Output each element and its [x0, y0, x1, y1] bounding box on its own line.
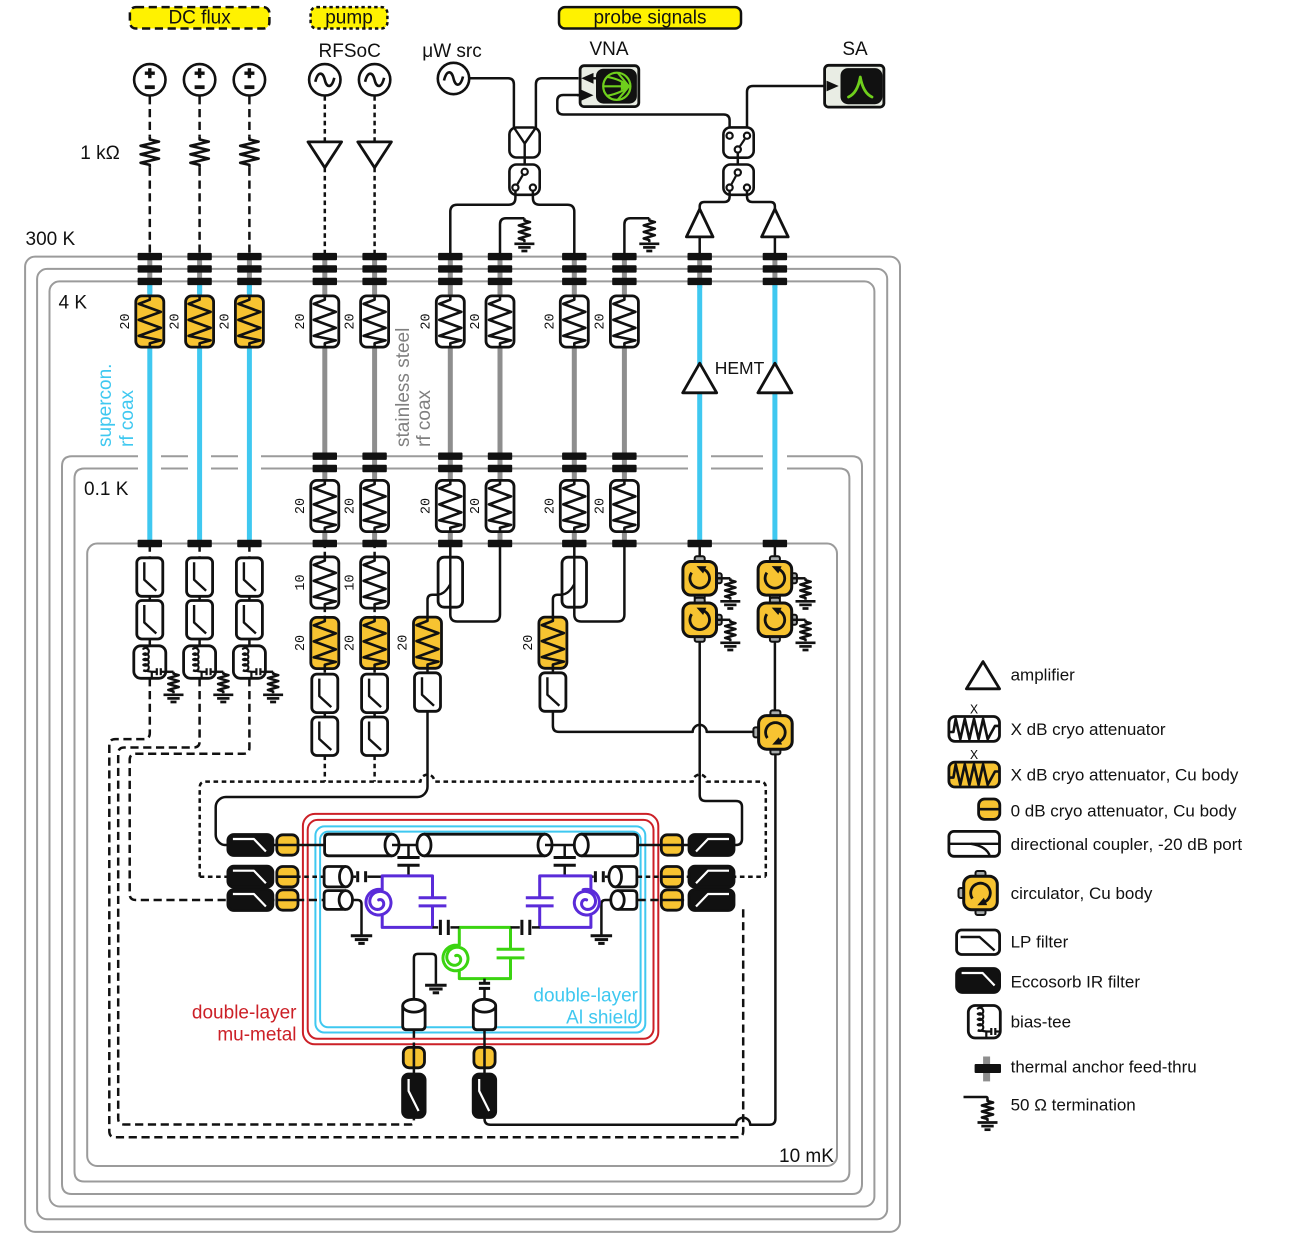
- wire dashed DC flux 1 plate to LP filter: [149, 544, 152, 559]
- attenuator 20 dB Cu body pump 1: [311, 617, 339, 668]
- svg-text:0.1 K: 0.1 K: [84, 479, 129, 500]
- wire from VNA port 1 to power splitter: [536, 78, 579, 127]
- resonator 2 spiral inductor: [574, 889, 599, 915]
- 0 dB attenuator Cu body flux row (right): [638, 899, 690, 902]
- svg-text:Al shield: Al shield: [566, 1008, 638, 1029]
- wire dotted from pump amplifier A1 to 300 K feed-thru: [324, 168, 327, 253]
- wire probe 1: [426, 668, 429, 673]
- wire from single circulator down and to device output (hops flux line): [485, 755, 776, 1125]
- supercon rf coax output line 2: [772, 284, 777, 542]
- wire DC flux 3 between LP filters: [248, 596, 251, 601]
- legend X dB cryo attenuator Cu body symbol: [949, 762, 1000, 787]
- LP filter pump 1 (second): [312, 717, 338, 756]
- thermal anchor feed-thru col 2 at 10 mK plate: [187, 540, 211, 547]
- 50 Ohm termination at lower circulator 1: [718, 619, 731, 622]
- svg-text:20: 20: [218, 313, 233, 329]
- circulator Cu body output 1 (lower): [695, 598, 705, 604]
- coupler spiral inductor (green): [443, 945, 468, 971]
- 50 Ohm termination at upper circulator 1: [718, 577, 731, 580]
- wire from VNA port 2 to microwave switch S2: [557, 95, 729, 131]
- attenuator 20 dB at 4 K col 2 (Cu body): [186, 296, 214, 347]
- thermal anchor feed-thru col 1 at 10 mK plate: [138, 540, 162, 547]
- thermal anchor feed-thrus col 11 at 300 K plates: [763, 253, 787, 260]
- cryostat shell 10 mK stage: [87, 544, 837, 1167]
- thermal anchor feed-thrus col 4 at 0.1 K plates: [313, 453, 337, 460]
- gray feed-thru wire DC flux line 1 at 300 K: [147, 253, 152, 293]
- circulator Cu body output 2 (lower): [770, 598, 780, 604]
- flux line 1 short to ground: [353, 900, 362, 935]
- wire dotted from pump amplifier A2 to 300 K feed-thru: [373, 168, 376, 253]
- svg-text:20: 20: [344, 635, 359, 651]
- stainless steel coax segment 0.1K-10mK col 8: [572, 531, 577, 542]
- attenuator 20 dB at 0.1 K col 4: [311, 480, 339, 531]
- stainless steel coax segment 4K-0.1K col 6: [448, 347, 453, 482]
- wire output line 2 circulator stack to single circulator: [774, 642, 777, 711]
- connector (flux line feed) below shield: [403, 1006, 425, 1030]
- wire -20 dB port of coupler 1 to attenuator: [428, 595, 439, 618]
- thermal anchor feed-thrus col 5 at 300 K plates: [362, 253, 386, 260]
- series capacitor pump drive to resonator 2: [605, 875, 609, 878]
- svg-text:20: 20: [469, 498, 484, 514]
- 50 Ohm termination at bias-tee 3: [268, 672, 278, 694]
- attenuator 20 dB at 4 K col 3 (Cu body): [235, 296, 263, 347]
- svg-text:circulator, Cu body: circulator, Cu body: [1011, 884, 1153, 903]
- svg-text:300 K: 300 K: [26, 229, 76, 250]
- pump amplifier A2 (pointing down): [358, 142, 392, 168]
- feedline coax segment 2 (center): [424, 834, 545, 856]
- DC source V1 (battery symbol): [134, 64, 165, 95]
- stainless steel coax segment 300K-4K col 8: [572, 253, 577, 296]
- thermal anchor feed-thrus col 7 at 0.1 K plates: [488, 453, 512, 460]
- svg-text:rf coax: rf coax: [414, 389, 435, 447]
- thermal anchor feed-thrus col 8 at 300 K plates: [562, 253, 586, 260]
- Eccosorb IR filter output chain: [473, 1074, 496, 1118]
- gray feed-thru wire output line 2 at 300 K: [772, 253, 777, 288]
- microwave switch S2 (VNA/SA select): [723, 127, 753, 157]
- svg-text:4 K: 4 K: [59, 293, 88, 314]
- attenuator 20 dB at 4 K col 7: [486, 296, 514, 347]
- wire dashed DC flux 2 plate to LP filter: [198, 544, 201, 559]
- double-layer Al shield (inner): [320, 832, 640, 1028]
- wire dashed from R1 to 300 K feed-thru: [149, 168, 152, 253]
- Eccosorb IR filter flux connector chain: [403, 1074, 426, 1118]
- svg-text:double-layer: double-layer: [533, 986, 638, 1007]
- Eccosorb IR filter feedline in (left): [228, 844, 277, 847]
- directional coupler probe line 2: [573, 544, 576, 558]
- wire dashed DC flux 3 plate to LP filter: [248, 544, 251, 559]
- connector (output line) below shield: [473, 1006, 495, 1030]
- svg-text:mu-metal: mu-metal: [217, 1025, 296, 1046]
- svg-text:X: X: [970, 704, 978, 719]
- svg-text:20: 20: [294, 498, 309, 514]
- svg-text:Eccosorb IR filter: Eccosorb IR filter: [1011, 973, 1141, 992]
- gray feed-thru wire DC flux line 2 at 300 K: [197, 253, 202, 293]
- wire from switch S3 to output amplifier 1: [700, 191, 730, 211]
- svg-text:20: 20: [119, 313, 134, 329]
- VNA port 1 arrow (out): [581, 73, 593, 84]
- stainless steel coax segment 4K-0.1K col 7: [498, 347, 503, 482]
- 50 Ohm termination (probe return 2): [644, 218, 655, 242]
- flux row coax stub (right): [618, 891, 637, 910]
- RFSoC source 2 (AC source): [359, 64, 390, 95]
- readout resonator 1 (circuit loop): [382, 876, 432, 928]
- svg-text:μW src: μW src: [422, 41, 482, 62]
- VNA Smith-chart icon: [603, 73, 630, 100]
- svg-text:thermal anchor feed-thru: thermal anchor feed-thru: [1011, 1058, 1197, 1077]
- attenuator 20 dB at 0.1 K col 8: [560, 480, 588, 531]
- svg-text:20: 20: [469, 313, 484, 329]
- legend 0 dB cryo attenuator symbol: [979, 799, 1000, 819]
- wire bias-tee 1 RF port to 50 Ohm termination: [166, 671, 174, 674]
- thermal anchor feed-thru col 6 at 10 mK plate: [438, 540, 462, 547]
- attenuator 20 dB at 0.1 K col 9: [610, 480, 638, 531]
- thermal anchor feed-thru col 7 at 10 mK plate: [488, 540, 512, 547]
- VNA instrument box: [580, 66, 639, 107]
- wire dashed DC flux 1 routing to right flux port (around bottom): [109, 678, 743, 1137]
- 0 dB attenuator Cu body pump row (left): [296, 875, 325, 878]
- wire dashed from DC source V1 to resistor: [149, 96, 152, 137]
- LP filter DC flux 2 (second): [187, 601, 213, 640]
- room-temperature output amplifier 2: [762, 209, 789, 237]
- wire from switch S1 to probe line 2 (300 K): [533, 191, 574, 253]
- 0 dB attenuator Cu body feedline out (right): [638, 844, 690, 847]
- wire between switch S2 and switch S3: [737, 153, 740, 170]
- wire bias-tee 2 RF port to 50 Ohm termination: [216, 671, 224, 674]
- wire from splitter to switch S1: [523, 158, 526, 165]
- resonator 2 capacitor: [526, 896, 554, 899]
- thermal anchor feed-thru col 10 at 10 mK plate: [688, 540, 712, 547]
- group label pump: [311, 7, 388, 28]
- wire dotted from RFSoC source 2 to amplifier: [373, 96, 376, 142]
- svg-text:pump: pump: [325, 8, 373, 29]
- wire dotted pump 1 plate to 10 dB attenuator: [324, 544, 327, 558]
- tunable coupler circuit loop (green): [459, 927, 510, 978]
- svg-text:20: 20: [419, 313, 434, 329]
- wire dashed flux chain to Eccosorb: [413, 1068, 416, 1074]
- svg-text:20: 20: [294, 313, 309, 329]
- 0 dB attenuator Cu body flux connector chain: [403, 1047, 424, 1067]
- circulator Cu body output 2 (upper): [770, 556, 780, 562]
- thermal anchor feed-thrus col 8 at 0.1 K plates: [562, 453, 586, 460]
- cryostat shell 300 K inner wall: [37, 269, 887, 1219]
- attenuator 20 dB Cu body pump 2: [361, 617, 389, 668]
- gray feed-thru wire output line 1 at 300 K: [697, 253, 702, 288]
- stainless steel coax segment 0.1K-10mK col 4: [322, 531, 327, 542]
- stainless steel coax segment 0.1K-10mK col 6: [448, 531, 453, 542]
- coupler capacitor (green): [497, 948, 525, 951]
- attenuator 20 dB Cu body probe 1: [414, 617, 442, 668]
- thermal anchor feed-thru col 3 at 10 mK plate: [237, 540, 261, 547]
- svg-text:20: 20: [543, 313, 558, 329]
- wire probe 2: [552, 668, 555, 673]
- group label probe signals: [559, 7, 741, 28]
- pump bus right branch into row-2 right Eccosorb: [732, 875, 766, 878]
- LP filter pump 2 (first): [362, 674, 388, 713]
- stainless steel coax segment 300K-4K col 4: [322, 253, 327, 296]
- wire from probe return line 2 to 50 Ohm termination: [624, 218, 649, 253]
- wire dotted pump 2 plate to 10 dB attenuator: [373, 544, 376, 558]
- svg-text:20: 20: [169, 313, 184, 329]
- double-layer mu-metal shield (outer): [303, 814, 658, 1044]
- svg-text:10: 10: [344, 574, 359, 590]
- wire from uW src to power splitter: [469, 78, 514, 127]
- svg-text:10 mK: 10 mK: [779, 1146, 834, 1167]
- legend amplifier symbol: [966, 662, 999, 689]
- svg-text:DC flux: DC flux: [168, 8, 231, 29]
- attenuator 20 dB at 4 K col 6: [436, 296, 464, 347]
- svg-text:20: 20: [419, 498, 434, 514]
- stainless steel coax segment 0.1K-10mK col 9: [622, 531, 627, 542]
- legend LP filter symbol: [957, 930, 1000, 955]
- thermal anchor feed-thru col 8 at 10 mK plate: [562, 540, 586, 547]
- cryostat shell 0.1 K stage outer (top edge with gaps at supercon coax): [62, 456, 862, 1194]
- coupler output capacitor to output connector: [483, 979, 486, 983]
- supercon rf coax output line 1: [697, 284, 702, 542]
- legend 50 Ohm termination symbol: [964, 1097, 988, 1100]
- pump bus dotted wire (to readout drive ports, hops over probe lines): [200, 775, 766, 877]
- wire DC flux 2 between LP filters: [198, 596, 201, 601]
- thermal anchor feed-thru col 9 at 10 mK plate: [612, 540, 636, 547]
- 50 Ohm termination at lower circulator 2: [793, 619, 806, 622]
- Eccosorb IR filter pump row (right): [689, 866, 734, 887]
- supercon rf coax DC flux line 3: [247, 347, 252, 542]
- wire from switch S1 to probe line 1 (300 K): [450, 191, 515, 253]
- wire DC flux 1 between LP filters: [149, 596, 152, 601]
- stainless steel coax segment 300K-4K col 5: [372, 253, 377, 296]
- wire bias-tee 3 RF port to 50 Ohm termination: [265, 671, 273, 674]
- wire dashed DC flux 2 routing to coupler flux port (around bottom): [118, 678, 414, 1124]
- svg-text:20: 20: [397, 635, 412, 651]
- svg-text:bias-tee: bias-tee: [1011, 1013, 1071, 1032]
- thermal anchor feed-thru col 11 at 10 mK plate: [763, 540, 787, 547]
- svg-text:20: 20: [294, 635, 309, 651]
- wire DC flux 2 LP to bias-tee: [198, 639, 201, 646]
- wire DC flux 1 LP to bias-tee: [149, 639, 152, 646]
- LP filter DC flux 2 (first): [187, 558, 213, 597]
- wire dotted pump 2: [373, 608, 376, 619]
- wire dotted pump 2 to pump bus: [373, 756, 376, 782]
- svg-text:20: 20: [593, 313, 608, 329]
- stainless steel coax segment 300K-4K col 7: [498, 253, 503, 296]
- RFSoC source 1 (AC source): [309, 64, 340, 95]
- svg-text:LP filter: LP filter: [1011, 933, 1069, 952]
- wire dotted pump 1: [324, 713, 327, 718]
- room-temperature output amplifier 1: [686, 209, 713, 237]
- stainless steel coax segment 300K-4K col 6: [448, 253, 453, 296]
- series capacitor resonator 2 to coupler: [532, 926, 540, 929]
- resonator 1 capacitor: [419, 896, 447, 899]
- U-turn wire coupler 2 through-port to return line: [574, 544, 624, 622]
- series capacitor resonator 1 to coupler: [433, 926, 439, 929]
- Eccosorb IR filter flux row (left): [228, 899, 277, 902]
- 50 Ohm termination at bias-tee 1: [168, 672, 178, 694]
- pump row coax stub (right): [615, 867, 637, 887]
- Eccosorb IR filter feedline out (right): [689, 835, 734, 856]
- U-turn wire coupler 1 through-port to return line: [450, 544, 500, 622]
- thermal anchor feed-thrus col 3 at 300 K plates: [237, 253, 261, 260]
- legend circulator symbol: [976, 871, 986, 877]
- thermal anchor feed-thrus col 6 at 300 K plates: [438, 253, 462, 260]
- thermal anchor feed-thrus col 9 at 0.1 K plates: [612, 453, 636, 460]
- wire dotted pump 2: [373, 713, 376, 718]
- attenuator 20 dB at 4 K col 8: [560, 296, 588, 347]
- 0 dB attenuator Cu body output chain: [474, 1047, 495, 1067]
- supercon rf coax DC flux line 2: [197, 347, 202, 542]
- bias-tee DC flux 3: [233, 646, 265, 679]
- flux line 2 short to ground: [601, 900, 610, 935]
- svg-text:SA: SA: [842, 39, 868, 60]
- wire dotted from RFSoC source 1 to amplifier: [324, 96, 327, 142]
- attenuator 10 dB pump 1: [311, 557, 339, 608]
- feedline wire at tap 2: [545, 844, 581, 847]
- attenuator 20 dB at 4 K col 9: [610, 296, 638, 347]
- cryostat shell 0.1 K stage inner (top edge with gaps): [75, 469, 850, 1182]
- svg-text:RFSoC: RFSoC: [319, 41, 381, 62]
- svg-text:50 Ω termination: 50 Ω termination: [1011, 1096, 1136, 1115]
- svg-text:20: 20: [344, 313, 359, 329]
- svg-text:stainless steel: stainless steel: [393, 328, 414, 447]
- bias-tee DC flux 1: [134, 646, 166, 679]
- circulator Cu body (single, output 2): [770, 710, 780, 716]
- wire dotted pump 2: [373, 668, 376, 674]
- thermal anchor feed-thrus col 6 at 0.1 K plates: [438, 453, 462, 460]
- LP filter DC flux 3 (first): [236, 558, 262, 597]
- stainless steel coax segment 4K-0.1K col 9: [622, 347, 627, 482]
- wire output line 1 plate to circulator stack: [698, 544, 701, 562]
- resistor 1 kOhm R2: [190, 137, 208, 168]
- stainless steel coax segment 4K-0.1K col 5: [372, 347, 377, 482]
- thermal anchor feed-thrus col 9 at 300 K plates: [612, 253, 636, 260]
- wire dashed from R3 to 300 K feed-thru: [248, 168, 251, 253]
- svg-text:1 kΩ: 1 kΩ: [80, 143, 120, 164]
- HEMT amplifier 2 at 4 K: [758, 363, 792, 393]
- cryostat shell 300 K (outermost): [25, 257, 900, 1232]
- pump bus left branch into row-2 left Eccosorb: [200, 875, 228, 878]
- coupler flux line short to ground (inside shield): [414, 954, 436, 1000]
- legend bias-tee symbol: [968, 1006, 1000, 1039]
- svg-text:HEMT: HEMT: [715, 358, 765, 378]
- svg-text:0 dB cryo attenuator, Cu body: 0 dB cryo attenuator, Cu body: [1011, 802, 1237, 821]
- SA spectrum peak icon: [849, 77, 873, 97]
- svg-text:double-layer: double-layer: [192, 1003, 297, 1024]
- wire dashed from DC source V2 to resistor: [198, 96, 201, 137]
- tap capacitor feedline to resonator 1: [407, 845, 410, 857]
- attenuator 20 dB at 4 K col 1 (Cu body): [136, 296, 164, 347]
- wire DC flux 3 LP to bias-tee: [248, 639, 251, 646]
- thermal anchor feed-thrus col 4 at 300 K plates: [313, 253, 337, 260]
- flux row coax stub (left): [324, 891, 346, 910]
- wire dashed from DC source V3 to resistor: [248, 96, 251, 137]
- svg-text:probe signals: probe signals: [593, 8, 706, 29]
- wire dashed from R2 to 300 K feed-thru: [198, 168, 201, 253]
- resistor 1 kOhm R3: [240, 137, 258, 168]
- LP filter probe 2: [540, 673, 566, 712]
- svg-text:X dB cryo attenuator: X dB cryo attenuator: [1011, 720, 1166, 739]
- svg-text:amplifier: amplifier: [1011, 666, 1076, 685]
- svg-text:20: 20: [522, 635, 537, 651]
- stainless steel coax segment 4K-0.1K col 4: [322, 347, 327, 482]
- SA instrument box: [825, 65, 884, 107]
- VNA port 2 arrow (in): [581, 90, 593, 101]
- LP filter pump 2 (second): [362, 717, 388, 756]
- svg-text:10: 10: [294, 574, 309, 590]
- thermal anchor feed-thru col 5 at 10 mK plate: [362, 540, 386, 547]
- bias-tee DC flux 2: [184, 646, 216, 679]
- stainless steel coax segment 4K-0.1K col 8: [572, 347, 577, 482]
- thermal anchor feed-thrus col 5 at 0.1 K plates: [362, 453, 386, 460]
- DC source V3 (battery symbol): [234, 64, 265, 95]
- svg-text:VNA: VNA: [589, 39, 628, 60]
- wire from probe return line 1 to 50 Ohm termination: [500, 218, 524, 253]
- DC source V2 (battery symbol): [184, 64, 215, 95]
- wire output line 1 from feedline (hops pump bus) up to circulator stack 1: [700, 642, 742, 845]
- LP filter DC flux 3 (second): [236, 601, 262, 640]
- LP filter DC flux 1 (first): [137, 558, 163, 597]
- attenuator 20 dB at 0.1 K col 7: [486, 480, 514, 531]
- cryostat shell 4 K stage: [50, 281, 875, 1206]
- stainless steel coax segment 0.1K-10mK col 7: [498, 531, 503, 542]
- wire output chain to Eccosorb: [483, 1068, 486, 1074]
- svg-text:20: 20: [593, 498, 608, 514]
- attenuator 10 dB pump 2: [361, 557, 389, 608]
- double-layer Al shield (outer): [315, 826, 645, 1032]
- 0 dB attenuator Cu body feedline in (left): [296, 844, 325, 847]
- thermal anchor feed-thru col 4 at 10 mK plate: [313, 540, 337, 547]
- microwave switch S3 (output line select): [723, 165, 753, 195]
- attenuator 20 dB at 4 K col 4: [311, 296, 339, 347]
- svg-text:X dB cryo attenuator, Cu body: X dB cryo attenuator, Cu body: [1011, 766, 1239, 785]
- svg-text:X: X: [970, 749, 978, 764]
- double-layer mu-metal shield (inner): [308, 820, 654, 1039]
- 50 Ohm termination (probe return 1): [519, 218, 530, 242]
- svg-text:supercon.: supercon.: [95, 364, 116, 447]
- 50 Ohm termination at bias-tee 2: [218, 672, 228, 694]
- attenuator 20 dB at 0.1 K col 5: [361, 480, 389, 531]
- readout resonator 2 (circuit loop): [540, 876, 591, 928]
- thermal anchor feed-thrus col 7 at 300 K plates: [488, 253, 512, 260]
- wire from switch S3 to output amplifier 2: [747, 191, 775, 211]
- svg-text:20: 20: [543, 498, 558, 514]
- microwave switch S1 (input select): [509, 165, 539, 195]
- stainless steel coax segment 300K-4K col 9: [622, 253, 627, 296]
- feedline wire at tap 1: [392, 844, 424, 847]
- Eccosorb IR filter flux row (right): [689, 890, 734, 911]
- feedline coax segment 3 (right): [581, 834, 637, 856]
- gray feed-thru wire DC flux line 3 at 300 K: [247, 253, 252, 293]
- legend Eccosorb IR filter symbol: [957, 969, 1000, 993]
- LP filter pump 1 (first): [312, 674, 338, 713]
- stainless steel coax segment 0.1K-10mK col 5: [372, 531, 377, 542]
- svg-text:20: 20: [344, 498, 359, 514]
- svg-text:rf coax: rf coax: [117, 389, 138, 447]
- wire from switch S2 to SA: [747, 86, 826, 131]
- LP filter probe 1: [415, 673, 441, 712]
- legend thermal anchor feed-thru symbol: [983, 1057, 990, 1082]
- thermal anchor feed-thrus col 10 at 300 K plates: [688, 253, 712, 260]
- wire dotted pump 1: [324, 668, 327, 674]
- attenuator 20 dB Cu body probe 2: [539, 617, 567, 668]
- 50 Ohm termination at upper circulator 2: [793, 577, 806, 580]
- 0 dB attenuator Cu body flux row (left): [296, 899, 325, 902]
- wire probe 1 down to feedline entry (left): [216, 711, 428, 845]
- resonator 1 spiral inductor: [366, 889, 391, 915]
- circulator Cu body output 1 (upper): [695, 556, 705, 562]
- wire output line 2 plate to circulator stack: [774, 544, 777, 562]
- directional coupler probe line 1: [449, 544, 452, 558]
- feedline coax segment 1 (left): [325, 834, 392, 856]
- series capacitor pump drive to resonator 1: [352, 875, 356, 878]
- wire dashed flux connector chain: [413, 1030, 416, 1046]
